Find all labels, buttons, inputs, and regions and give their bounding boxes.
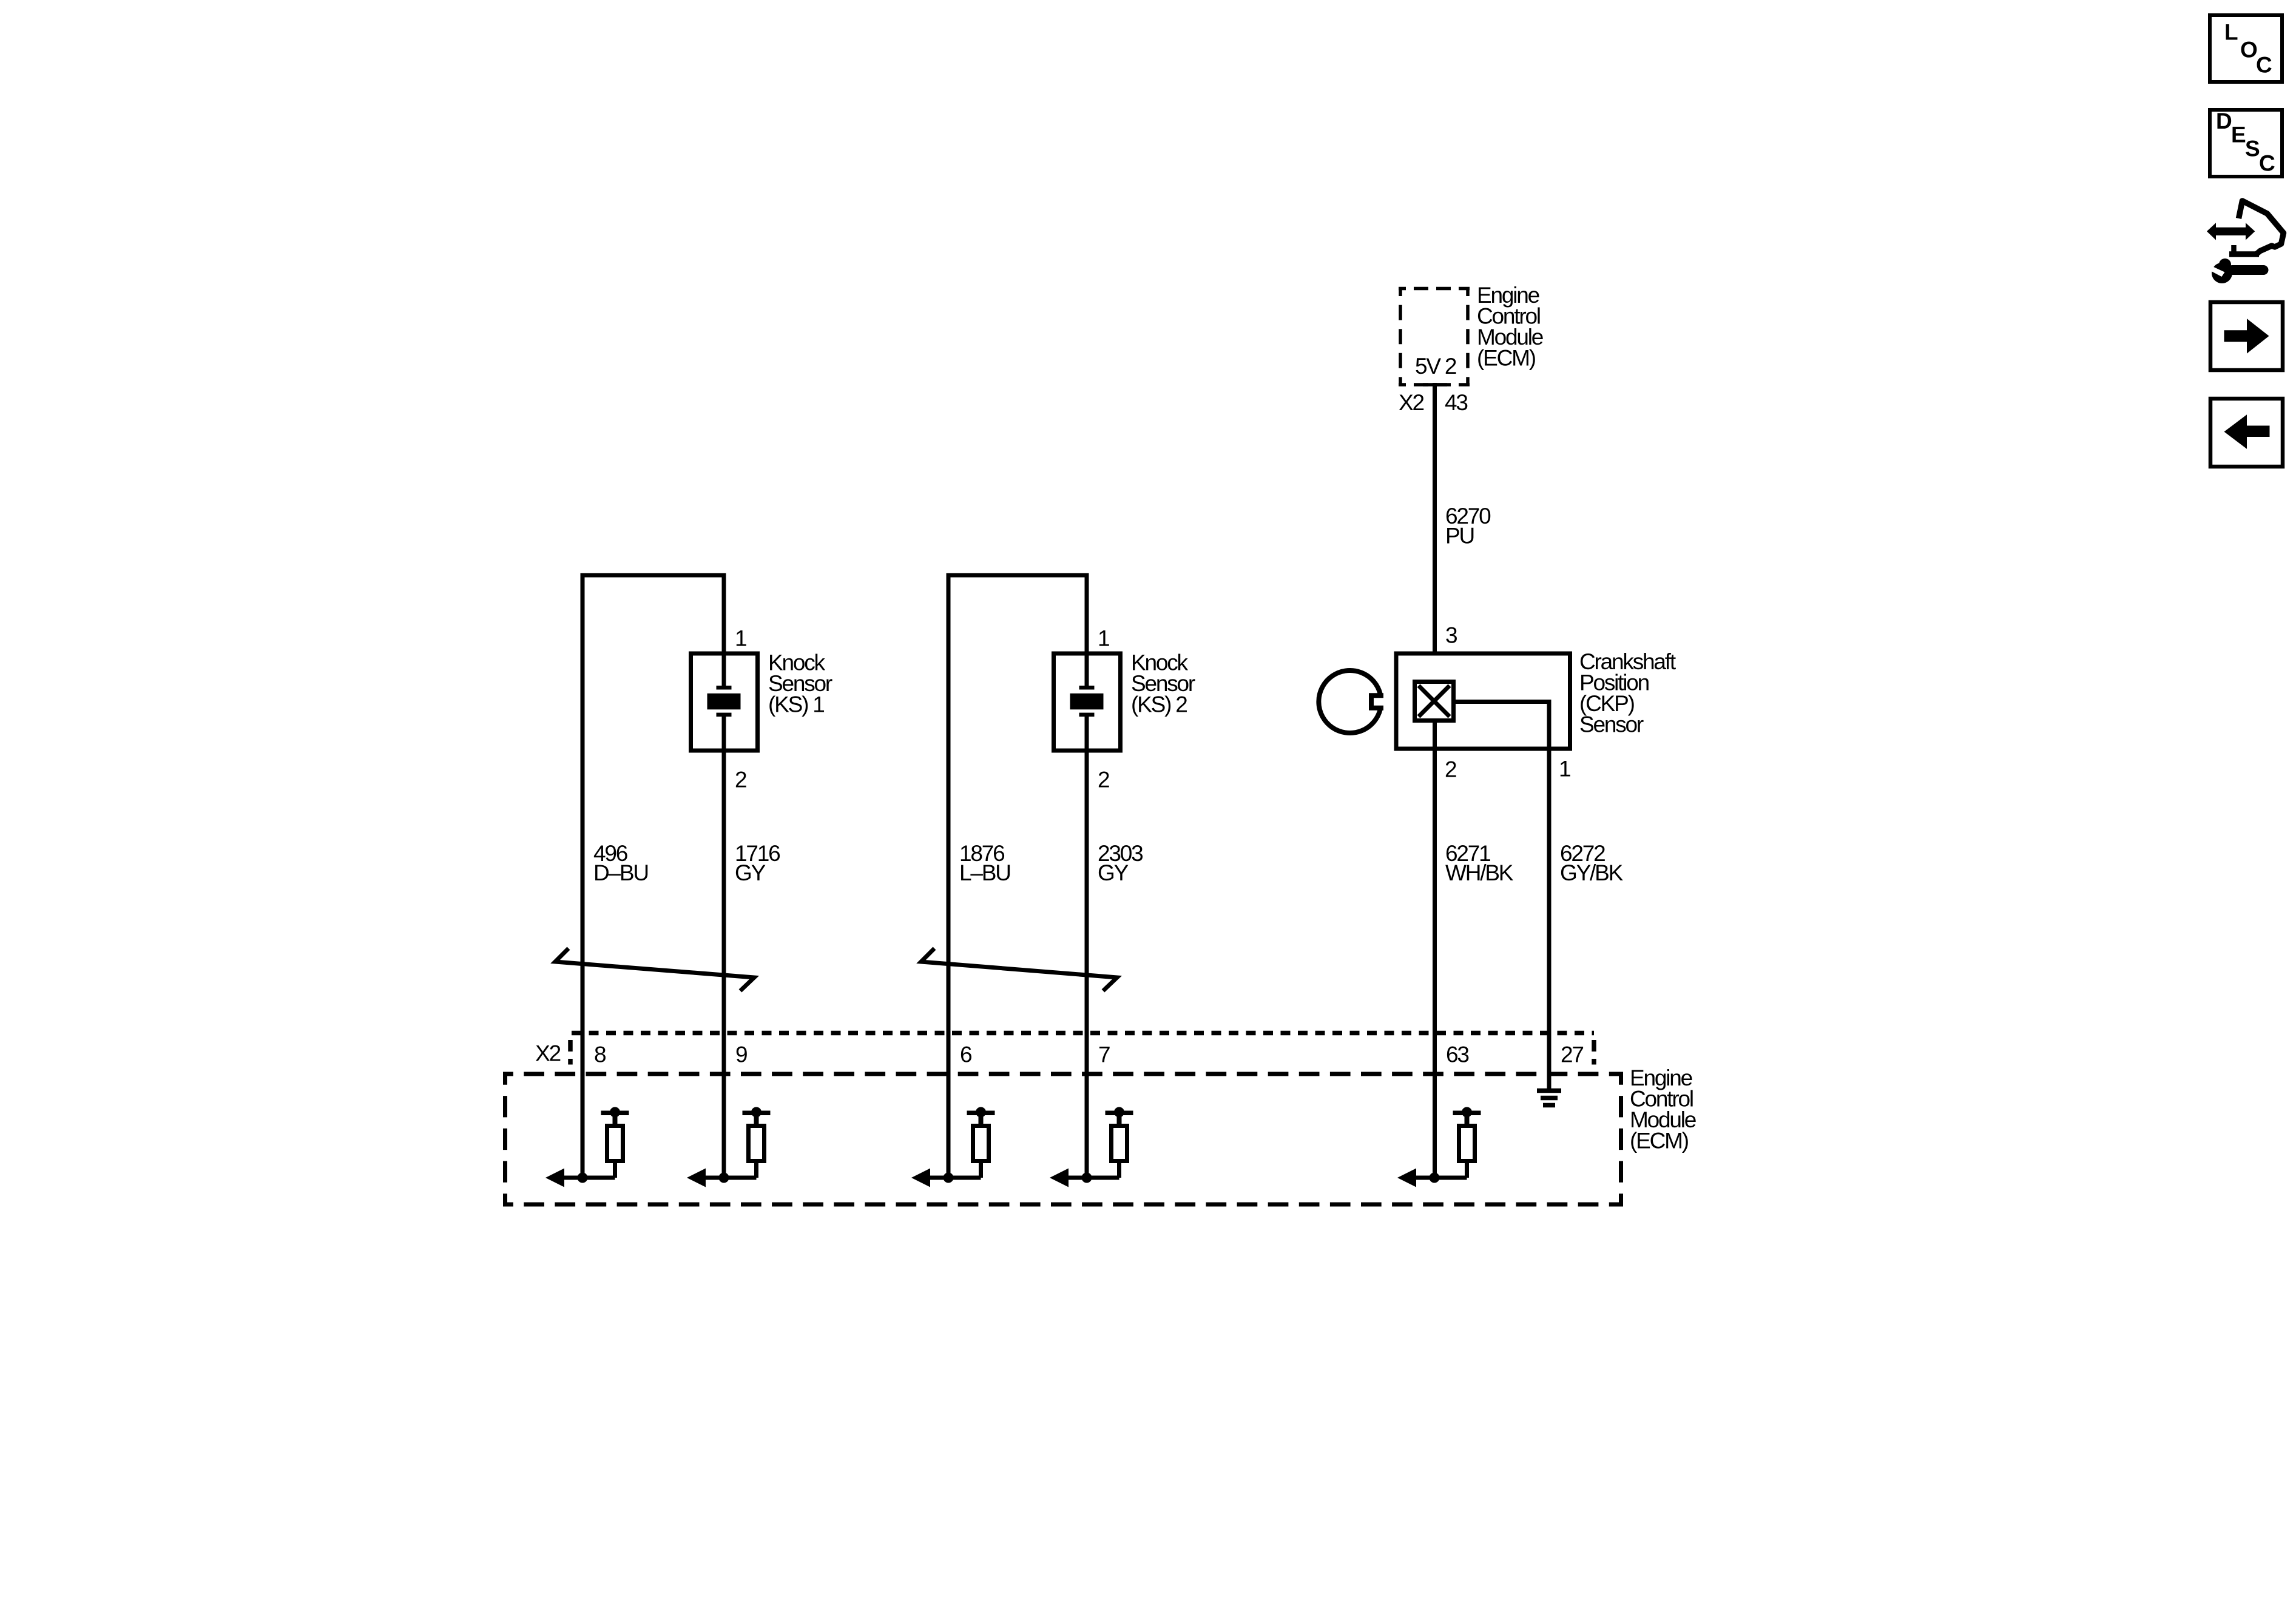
wire KS1 signal (left): [581, 575, 585, 1178]
KS2 piezo element: [1070, 686, 1104, 717]
CKP pin 2 label: [1445, 757, 1456, 782]
twisted pair marker KS2: [921, 948, 1117, 991]
wire 6270 (5V ref) from ECM to CKP: [1433, 383, 1437, 653]
svg-text:L–BU: L–BU: [959, 860, 1010, 885]
svg-text:GY: GY: [1098, 860, 1129, 885]
wire KS1 pin1 drop: [722, 575, 726, 687]
CKP pin 1 label: [1559, 757, 1570, 781]
svg-text:S: S: [2245, 137, 2260, 161]
svg-text:C: C: [2256, 53, 2272, 78]
CKP connector circle with notch: [1319, 670, 1383, 733]
svg-text:(ECM): (ECM): [1630, 1129, 1689, 1153]
wire KS2 signal (left): [947, 575, 951, 1178]
svg-text:X2: X2: [535, 1041, 560, 1066]
svg-text:(KS) 2: (KS) 2: [1131, 692, 1187, 717]
wire KS1 pin2 drop: [722, 715, 726, 1178]
ECM connector dotted line X2: [570, 1031, 1594, 1036]
svg-text:5V 2: 5V 2: [1415, 354, 1456, 379]
wire label 496: [593, 841, 648, 885]
svg-text:O: O: [2240, 37, 2257, 62]
svg-text:7: 7: [1098, 1042, 1110, 1067]
wire label 6271 WH/BK: [1445, 841, 1514, 885]
svg-text:1: 1: [1098, 626, 1109, 651]
engine icon wrench: [2210, 258, 2269, 283]
wire 6271 CKP signal (pin 2): [1433, 721, 1437, 1178]
DESC button: [2210, 110, 2282, 177]
ECM internal signal arrow at pin wire x=960: [563, 1176, 615, 1180]
svg-text:WH/BK: WH/BK: [1445, 860, 1514, 885]
wire label 6270 PU: [1445, 504, 1491, 548]
ECM pin 63 label: [1446, 1042, 1468, 1067]
ECM bottom dashed box: [503, 1072, 1623, 1076]
ECM top name label: [1477, 283, 1543, 371]
connector separator left: [568, 1040, 573, 1065]
ECM internal signal arrow at pin wire x=1791: [1067, 1176, 1119, 1180]
next (right arrow) button: [2210, 302, 2283, 370]
ECM internal resistor at pin wire x=1791: [1106, 1107, 1133, 1126]
ECM pin 27 label: [1561, 1042, 1583, 1067]
svg-text:3: 3: [1445, 623, 1457, 648]
svg-text:2: 2: [1445, 757, 1456, 782]
KS1 pin 2 label: [735, 768, 746, 792]
svg-text:GY/BK: GY/BK: [1560, 860, 1624, 885]
pin 43 label: [1445, 390, 1467, 415]
CKP sensor box: [1396, 653, 1570, 749]
svg-text:GY: GY: [735, 860, 766, 885]
ECM internal resistor at pin wire x=2364: [1453, 1107, 1481, 1126]
connector label X2 (bottom): [535, 1041, 560, 1066]
wire label 2303: [1098, 841, 1143, 885]
svg-text:Sensor: Sensor: [1579, 712, 1644, 737]
ECM internal resistor at pin wire x=960: [601, 1107, 629, 1126]
wire loop top KS2: [947, 573, 1089, 578]
svg-text:43: 43: [1445, 390, 1467, 415]
svg-text:63: 63: [1446, 1042, 1468, 1067]
ECM pin 9 label: [735, 1042, 747, 1067]
back (left arrow) button: [2210, 399, 2283, 467]
wire KS2 pin1 drop: [1085, 575, 1089, 687]
svg-text:1: 1: [735, 626, 746, 651]
wire loop top KS1: [581, 573, 726, 578]
ECM internal signal arrow at pin wire x=2364: [1415, 1176, 1467, 1180]
KS2 pin 1 label: [1098, 626, 1109, 651]
ECM internal signal arrow at pin wire x=1193: [704, 1176, 757, 1180]
svg-text:D: D: [2216, 109, 2232, 133]
KS1 box: [691, 653, 758, 751]
ECM internal resistor at pin wire x=1563: [967, 1107, 995, 1126]
CKP sensor name label: [1579, 649, 1676, 737]
ECM bottom name label: [1630, 1065, 1696, 1153]
svg-text:1: 1: [1559, 757, 1570, 781]
pin 3 label (CKP): [1445, 623, 1457, 648]
svg-text:9: 9: [735, 1042, 747, 1067]
wire label 6272 GY/BK: [1560, 841, 1624, 885]
ECM internal resistor at pin wire x=1193: [743, 1107, 771, 1126]
ECM pin 6 label: [960, 1042, 971, 1067]
pin label 5V 2: [1415, 354, 1456, 379]
KS2 name label: [1131, 650, 1195, 717]
wire label 1716: [735, 841, 780, 885]
KS2 box: [1054, 653, 1121, 751]
svg-text:L: L: [2224, 20, 2238, 45]
svg-text:C: C: [2259, 151, 2275, 176]
engine icon double arrow: [2207, 223, 2255, 240]
ECM pin 8 label: [594, 1042, 606, 1067]
twisted pair marker KS1: [555, 948, 754, 991]
wire label 1876: [959, 841, 1010, 885]
ground symbol (pin 27): [1537, 1091, 1561, 1106]
svg-text:8: 8: [594, 1042, 606, 1067]
svg-text:D–BU: D–BU: [593, 860, 648, 885]
svg-text:E: E: [2231, 123, 2246, 147]
ECM internal signal arrow at pin wire x=1563: [929, 1176, 981, 1180]
KS1 name label: [768, 650, 832, 717]
svg-text:(ECM): (ECM): [1477, 345, 1536, 370]
ECM top dashed box: [1399, 289, 1470, 385]
KS1 pin 1 label: [735, 626, 746, 651]
CKP coil element (X box): [1415, 682, 1454, 721]
svg-text:2: 2: [1098, 768, 1109, 792]
svg-text:X2: X2: [1399, 390, 1423, 415]
KS1 piezo element: [707, 686, 741, 717]
wire KS2 pin2 drop: [1085, 715, 1089, 1178]
svg-text:2: 2: [735, 768, 746, 792]
svg-text:6: 6: [960, 1042, 971, 1067]
svg-text:PU: PU: [1445, 523, 1474, 548]
engine service icon: [2229, 201, 2284, 255]
wire CKP internal pin1 to ground: [1454, 702, 1550, 1089]
ECM pin 7 label: [1098, 1042, 1110, 1067]
svg-text:(KS) 1: (KS) 1: [768, 692, 824, 717]
LOC button: [2210, 15, 2282, 82]
connector label X2 (top ECM): [1399, 390, 1423, 415]
KS2 pin 2 label: [1098, 768, 1109, 792]
svg-text:27: 27: [1561, 1042, 1583, 1067]
connector separator right: [1592, 1040, 1596, 1065]
